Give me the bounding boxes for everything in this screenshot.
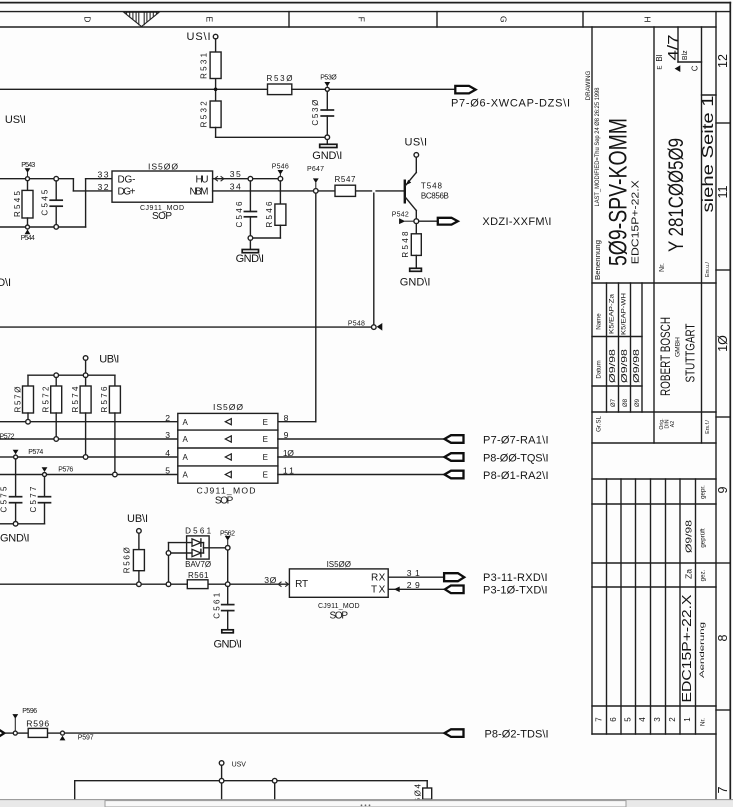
- svg-text:E: E: [263, 418, 268, 427]
- svg-text:8: 8: [716, 634, 730, 641]
- svg-text:Ø9/98: Ø9/98: [683, 520, 693, 553]
- resistor R576: [100, 375, 120, 472]
- svg-text:GND\I: GND\I: [312, 150, 342, 162]
- svg-text:P7-Ø6-XWCAP-DZS\I: P7-Ø6-XWCAP-DZS\I: [451, 97, 570, 109]
- svg-text:R56Ø: R56Ø: [122, 547, 131, 573]
- svg-text:BAV7Ø: BAV7Ø: [185, 560, 211, 569]
- output flag P3-11-RXD\I: [444, 572, 547, 584]
- svg-text:P53Ø: P53Ø: [320, 75, 337, 82]
- svg-text:A: A: [183, 471, 189, 480]
- svg-text:34: 34: [230, 181, 241, 191]
- svg-text:4: 4: [638, 717, 647, 722]
- svg-text:A2: A2: [670, 421, 676, 427]
- junction R560 main: [137, 582, 142, 587]
- svg-text:9: 9: [716, 486, 730, 493]
- junction R570 row2: [26, 419, 31, 424]
- arrow mark: [675, 65, 681, 72]
- svg-text:Blz: Blz: [682, 50, 689, 60]
- svg-text:11: 11: [716, 185, 730, 198]
- svg-text:2: 2: [668, 717, 677, 722]
- wire R530 to flag: [292, 88, 456, 90]
- input flag P8-02-TDS\I: [445, 728, 549, 740]
- junction R531/R532: [214, 88, 218, 92]
- terminal US\I at T548: [405, 137, 428, 158]
- svg-text:32: 32: [98, 182, 109, 192]
- svg-text:R53Ø: R53Ø: [267, 74, 293, 83]
- wire UB bus: [28, 374, 115, 376]
- ground GND\I at R548: [400, 268, 431, 288]
- svg-text:SOP: SOP: [215, 495, 234, 506]
- svg-text:Nr.: Nr.: [700, 718, 707, 726]
- svg-text:E: E: [656, 66, 663, 70]
- wire vertical base node to P548: [373, 193, 375, 325]
- junction C561 main: [225, 582, 230, 587]
- svg-text:ROBERT BOSCH: ROBERT BOSCH: [658, 317, 673, 396]
- svg-text:CJ911_MOD: CJ911_MOD: [318, 603, 360, 610]
- svg-text:UB\I: UB\I: [99, 353, 119, 365]
- node P542: [392, 211, 419, 224]
- wire RT main net: [0, 583, 289, 585]
- svg-text:Za: Za: [683, 569, 693, 579]
- input flag P7-07-RA1\I: [445, 434, 549, 446]
- svg-text:P596: P596: [22, 708, 37, 715]
- svg-text:BC856B: BC856B: [421, 192, 449, 201]
- wire pin11 to flag: [278, 474, 445, 476]
- junction USV stub: [219, 778, 224, 783]
- capacitor C561: [212, 587, 233, 630]
- svg-text:12: 12: [716, 54, 730, 68]
- svg-text:H: H: [643, 16, 653, 22]
- driver IC IS500 (DG): [112, 162, 213, 223]
- scrollbar thumb: [105, 801, 626, 807]
- svg-text:5: 5: [623, 717, 632, 722]
- svg-text:E: E: [205, 16, 215, 22]
- input flag P3-10-TXD\I: [445, 585, 548, 597]
- wire pin9 to flag: [278, 438, 445, 440]
- svg-text:P7-Ø7-RA1\I: P7-Ø7-RA1\I: [483, 434, 549, 446]
- svg-text:5Ø9-SPV-KOMM: 5Ø9-SPV-KOMM: [605, 118, 633, 266]
- svg-text:Ø9/98: Ø9/98: [631, 349, 641, 383]
- svg-text:7: 7: [594, 717, 603, 722]
- resistor R548: [401, 224, 421, 269]
- svg-text:3: 3: [165, 430, 170, 440]
- svg-text:3: 3: [653, 717, 662, 722]
- svg-text:HU: HU: [196, 174, 209, 185]
- resistor R547: [335, 175, 357, 196]
- svg-text:Nr.: Nr.: [659, 263, 666, 272]
- svg-text:IS5ØØ: IS5ØØ: [148, 162, 178, 172]
- svg-text:E: E: [263, 435, 268, 444]
- node P530: [320, 75, 337, 92]
- svg-text:LAST_MODIFIED=Thu Sep 24 Ø8 26: LAST_MODIFIED=Thu Sep 24 Ø8 26:25 1998: [594, 87, 601, 207]
- wire US net to R531: [0, 39, 268, 101]
- wire P596 net: [4, 732, 444, 734]
- svg-text:NBM: NBM: [190, 187, 209, 198]
- capacitor C575: [0, 459, 22, 522]
- svg-text:A: A: [183, 453, 189, 462]
- svg-text:XDZI-XXFM\I: XDZI-XXFM\I: [482, 216, 551, 228]
- scrollbar track: [0, 800, 733, 807]
- svg-text:R561: R561: [188, 571, 209, 580]
- svg-text:GMBH: GMBH: [675, 337, 682, 357]
- svg-text:A: A: [183, 435, 189, 444]
- svg-text:5: 5: [165, 466, 170, 476]
- resistor R596: [26, 719, 49, 738]
- svg-text:TX: TX: [371, 585, 386, 596]
- bidir arrow pin 30: [278, 582, 288, 587]
- svg-text:DRAWING: DRAWING: [585, 70, 592, 100]
- svg-text:Ø9/98: Ø9/98: [619, 349, 629, 383]
- capacitor C577: [29, 477, 50, 524]
- svg-text:K5/EAP-Za: K5/EAP-Za: [609, 293, 616, 334]
- node P544: [21, 225, 35, 242]
- svg-text:Ers.u./: Ers.u./: [705, 261, 711, 277]
- svg-text:P3-11-RXD\I: P3-11-RXD\I: [483, 572, 548, 584]
- svg-text:UB\I: UB\I: [127, 513, 148, 525]
- svg-text:GND\I: GND\I: [214, 639, 242, 651]
- resistor R572: [42, 378, 62, 437]
- interface IC IS500 (RT): [289, 560, 388, 621]
- svg-text:P544: P544: [21, 235, 35, 242]
- wire pin35 HU net: [213, 178, 279, 180]
- node P546: [272, 164, 289, 182]
- svg-text:Datum: Datum: [596, 360, 603, 378]
- svg-text:R57Ø: R57Ø: [13, 387, 22, 413]
- input flag P8-00-TQS\I: [445, 452, 549, 464]
- svg-text:SOP: SOP: [152, 211, 172, 222]
- svg-text:GND\I: GND\I: [0, 277, 11, 289]
- fold mark triangle: [124, 12, 160, 26]
- svg-text:DG-: DG-: [118, 174, 136, 185]
- resistor R574: [71, 378, 91, 455]
- resistor R561: [187, 571, 209, 588]
- wire row pin4: [0, 456, 178, 458]
- terminal USV bottom: [219, 761, 246, 779]
- terminal US\I top: [187, 31, 218, 43]
- junction R572 row3: [54, 437, 59, 442]
- wire D561 cathode: [201, 543, 228, 582]
- wire net DG+ (P543): [0, 179, 112, 191]
- svg-text:1: 1: [683, 717, 692, 722]
- svg-text:4/7: 4/7: [666, 35, 682, 61]
- svg-text:T548: T548: [421, 182, 443, 191]
- node P647: [307, 166, 324, 193]
- svg-text:siehe Seite 1: siehe Seite 1: [700, 96, 717, 213]
- ground GND\I at C530: [312, 135, 342, 162]
- svg-text:6: 6: [609, 717, 618, 722]
- capacitor C546: [235, 176, 256, 235]
- svg-text:US\I: US\I: [405, 137, 428, 149]
- junction R576 row5: [113, 472, 118, 477]
- svg-text:2: 2: [165, 413, 170, 423]
- wire row pin5: [0, 474, 178, 476]
- svg-text:gez.: gez.: [700, 569, 707, 581]
- svg-text:DG+: DG+: [118, 187, 136, 198]
- svg-text:7: 7: [716, 786, 730, 793]
- junction D561 anode main: [166, 582, 171, 587]
- svg-text:RX: RX: [371, 572, 386, 583]
- node P597: [60, 731, 94, 741]
- svg-text:P543: P543: [21, 162, 35, 169]
- svg-text:Name: Name: [596, 313, 603, 330]
- svg-text:STUTTGART: STUTTGART: [682, 323, 697, 382]
- svg-text:P572: P572: [0, 433, 15, 440]
- svg-text:E: E: [263, 453, 268, 462]
- wire net DG- (P544): [0, 179, 112, 227]
- svg-text:P3-1Ø-TXD\I: P3-1Ø-TXD\I: [483, 585, 548, 597]
- svg-text:P8-Ø2-TDS\I: P8-Ø2-TDS\I: [485, 728, 549, 740]
- svg-text:SOP: SOP: [330, 610, 349, 621]
- wire pin29 TX: [388, 587, 445, 593]
- bidir arrow pin 35: [215, 176, 224, 181]
- ground GND\I at C546: [236, 236, 265, 265]
- svg-text:35: 35: [230, 169, 241, 179]
- svg-text:Ø7: Ø7: [610, 398, 617, 407]
- svg-text:P562: P562: [220, 530, 235, 537]
- svg-text:IS5ØØ: IS5ØØ: [327, 560, 351, 569]
- svg-text:Gr.SL: Gr.SL: [596, 416, 603, 432]
- junction D561 anode: [166, 551, 171, 556]
- svg-text:K5/EAP-WH: K5/EAP-WH: [621, 293, 628, 335]
- wire R532 to GND node: [216, 128, 325, 138]
- buffer IC IS500 quad: [178, 402, 278, 507]
- svg-text:P8-Ø1-RA2\I: P8-Ø1-RA2\I: [483, 470, 549, 482]
- svg-text:Ø8: Ø8: [622, 398, 629, 407]
- svg-text:33: 33: [98, 170, 109, 180]
- svg-text:Bl: Bl: [655, 54, 664, 61]
- node P576: [42, 466, 74, 476]
- wire USV bus bottom: [75, 781, 428, 800]
- terminal UB\I lower section: [127, 513, 148, 533]
- svg-text:RT: RT: [295, 579, 308, 590]
- svg-text:CJ911_MOD: CJ911_MOD: [197, 485, 256, 495]
- resistor R604 (clipped): [413, 783, 431, 807]
- svg-text:GND\I: GND\I: [0, 532, 30, 544]
- wire row pin3: [0, 438, 178, 440]
- svg-text:Ø9: Ø9: [634, 398, 641, 407]
- svg-text:IS5ØØ: IS5ØØ: [213, 402, 243, 412]
- svg-text:4: 4: [165, 448, 170, 458]
- resistor R531: [199, 52, 221, 79]
- wire vertical P647 to pin8: [278, 193, 316, 422]
- svg-text:1Ø: 1Ø: [716, 335, 730, 352]
- node P562: [220, 530, 235, 550]
- diode D561 BAV70: [185, 527, 212, 570]
- svg-text:Ø9/98: Ø9/98: [607, 349, 617, 383]
- resistor R530: [267, 74, 293, 95]
- svg-text:G: G: [499, 16, 509, 23]
- resistor R560: [122, 533, 144, 582]
- svg-text:P647: P647: [307, 166, 324, 173]
- svg-text:Aenderung: Aenderung: [699, 621, 706, 678]
- terminal UB\I quad section: [83, 353, 119, 373]
- svg-text:C: C: [691, 65, 700, 71]
- svg-text:Benennung: Benennung: [595, 240, 602, 280]
- wire net P548 horizontal: [0, 326, 372, 328]
- svg-text:D: D: [83, 16, 93, 22]
- node P548: [348, 320, 382, 330]
- svg-text:GND\I: GND\I: [400, 276, 431, 288]
- ground GND\I at C561: [214, 630, 242, 651]
- svg-text:gepr.: gepr.: [700, 485, 707, 499]
- svg-text:geprüft: geprüft: [700, 528, 707, 548]
- svg-text:R547: R547: [335, 175, 357, 184]
- wire D561 anodes: [169, 543, 193, 582]
- input flag P8-01-RA2\I: [445, 470, 549, 482]
- svg-text:USV: USV: [232, 762, 247, 769]
- resistor R532: [199, 101, 221, 128]
- svg-text:C53Ø: C53Ø: [311, 100, 320, 126]
- wire pin10 to flag: [278, 456, 445, 458]
- junction USV bus: [272, 778, 277, 783]
- svg-text:US\I: US\I: [5, 114, 26, 126]
- resistor R570: [13, 375, 33, 419]
- svg-text:P548: P548: [348, 320, 365, 327]
- svg-text:F: F: [357, 17, 367, 22]
- svg-text:P8-ØØ-TQS\I: P8-ØØ-TQS\I: [483, 452, 549, 464]
- wire row pin2: [0, 421, 178, 423]
- svg-text:Ers.f./: Ers.f./: [705, 420, 711, 434]
- svg-text:E: E: [263, 471, 268, 480]
- svg-text:A: A: [183, 418, 189, 427]
- junction UB/R572: [54, 373, 59, 378]
- svg-text:P546: P546: [272, 164, 289, 171]
- svg-text:P576: P576: [58, 466, 73, 473]
- svg-text:P574: P574: [28, 449, 43, 456]
- wire pin31 RX: [388, 576, 444, 578]
- junction C575 gnd: [13, 522, 18, 527]
- svg-text:R596: R596: [26, 719, 49, 729]
- wire pin34 NBM net: [213, 190, 404, 192]
- svg-text:GND\I: GND\I: [236, 253, 265, 265]
- svg-text:P597: P597: [78, 735, 94, 742]
- junction R574 row4: [83, 455, 88, 460]
- capacitor C530: [311, 91, 333, 135]
- junction UB/R574: [83, 373, 88, 378]
- output flag XDZI-XXFM\I: [419, 216, 552, 228]
- node P543: [21, 162, 35, 181]
- resistor R545: [13, 181, 33, 225]
- node P596: [12, 708, 37, 735]
- svg-text:3Ø: 3Ø: [264, 575, 276, 585]
- svg-text:Y 281CØØ5Ø9: Y 281CØØ5Ø9: [665, 138, 688, 252]
- input flag stub left edge (P596 net): [0, 729, 4, 736]
- svg-text:EDC15P+-22.X: EDC15P+-22.X: [680, 594, 694, 703]
- output flag P7-06-XWCAP-DZS\I: [451, 86, 570, 110]
- svg-text:P542: P542: [392, 211, 409, 218]
- svg-text:8: 8: [284, 413, 289, 423]
- node P574: [13, 449, 44, 459]
- wire GND net of C575/C577: [0, 523, 45, 525]
- svg-text:US\I: US\I: [187, 31, 211, 43]
- resistor R546: [253, 181, 286, 238]
- svg-text:EDC15P+-22.X: EDC15P+-22.X: [631, 180, 642, 264]
- transistor T548 BC856B: [405, 157, 449, 219]
- capacitor C545: [40, 176, 62, 229]
